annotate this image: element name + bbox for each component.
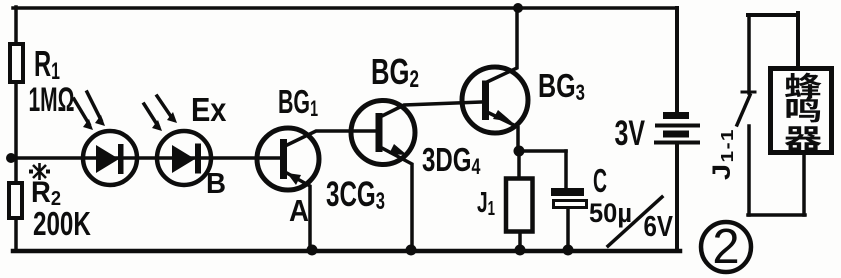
svg-text:Ex: Ex bbox=[191, 91, 227, 128]
svg-text:B: B bbox=[206, 167, 226, 200]
svg-text:A: A bbox=[289, 194, 309, 229]
svg-text:6V: 6V bbox=[644, 210, 674, 243]
svg-text:C: C bbox=[593, 163, 607, 200]
svg-text:3V: 3V bbox=[615, 114, 646, 153]
svg-text:200K: 200K bbox=[33, 206, 91, 242]
svg-text:50µ: 50µ bbox=[589, 197, 632, 228]
svg-text:1MΩ: 1MΩ bbox=[29, 80, 75, 119]
svg-text:2: 2 bbox=[712, 220, 739, 274]
